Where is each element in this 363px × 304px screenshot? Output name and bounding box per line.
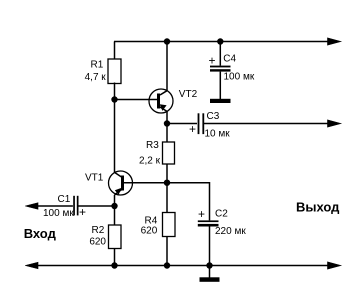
svg-text:C4: C4 xyxy=(223,54,236,65)
label Вход (input) xyxy=(24,226,57,241)
label Выход (output) xyxy=(296,199,340,214)
node: VT2 collector on top rail xyxy=(164,38,170,44)
wire: VT1 base to node C and on to C2 branch corner xyxy=(124,183,210,221)
resistor R4 xyxy=(163,183,176,266)
C1 plus sign xyxy=(79,205,86,219)
svg-text:C3: C3 xyxy=(207,111,220,122)
value 10 мк xyxy=(205,129,231,140)
svg-text:620: 620 xyxy=(141,226,158,237)
svg-text:10 мк: 10 мк xyxy=(205,129,231,140)
svg-text:C2: C2 xyxy=(215,209,228,220)
resistor R2 xyxy=(109,206,122,266)
resistor R3 xyxy=(163,124,175,183)
node: R4 on bottom rail xyxy=(164,262,170,268)
node: R2 on bottom rail xyxy=(111,262,117,268)
C3 output arrow terminal xyxy=(328,120,342,127)
wire: VT2 collector up to top rail xyxy=(166,42,168,91)
svg-text:2,2 к: 2,2 к xyxy=(139,155,161,166)
label R2 xyxy=(92,225,105,236)
value 100 мк (C1) xyxy=(43,208,74,219)
capacitor C4 xyxy=(210,42,231,100)
label R1 xyxy=(91,60,104,71)
label VT2 xyxy=(179,89,198,100)
svg-text:C1: C1 xyxy=(58,194,71,205)
top rail right arrow terminal xyxy=(328,38,342,45)
input arrow terminal xyxy=(25,203,38,210)
svg-text:VT1: VT1 xyxy=(85,172,104,183)
C2 plus sign xyxy=(198,207,205,221)
svg-text:620: 620 xyxy=(89,237,106,248)
svg-text:+: + xyxy=(198,207,205,221)
C3 plus sign xyxy=(189,122,196,136)
wire: VT1 emitter to node B xyxy=(114,195,116,206)
value 2,2 к xyxy=(139,155,161,166)
transistor VT2 xyxy=(149,89,173,113)
wire: node A down to VT1 collector xyxy=(114,100,116,173)
ground symbol below bottom rail xyxy=(200,266,220,282)
svg-text:100 мк: 100 мк xyxy=(224,72,255,83)
value 4,7 к xyxy=(85,72,107,83)
capacitor C2 xyxy=(198,220,219,265)
label C3 xyxy=(207,111,220,122)
capacitor C3 xyxy=(167,113,332,134)
bottom rail left arrow terminal xyxy=(25,262,38,269)
transistor VT1 xyxy=(109,171,133,195)
label R3 xyxy=(146,140,159,151)
value 620 (R4) xyxy=(141,226,158,237)
C4 plus sign xyxy=(209,54,216,68)
bottom rail right arrow terminal xyxy=(328,262,342,269)
wire: bottom common rail xyxy=(29,265,332,267)
label R4 xyxy=(145,216,158,227)
resistor R1 xyxy=(108,42,121,100)
svg-text:100 мк: 100 мк xyxy=(43,208,74,219)
node: VT2 emitter / C3 / R3 junction xyxy=(164,120,170,126)
svg-text:Вход: Вход xyxy=(24,226,57,241)
wire: VT2 emitter down to emitter node xyxy=(166,111,168,123)
svg-text:+: + xyxy=(189,122,196,136)
wire: node A to VT2 base xyxy=(115,99,158,101)
svg-text:220 мк: 220 мк xyxy=(215,226,246,237)
value 220 мк xyxy=(215,226,246,237)
svg-text:+: + xyxy=(209,54,216,68)
node: C2 / ground on bottom rail xyxy=(206,262,212,268)
label VT1 xyxy=(85,172,104,183)
svg-text:VT2: VT2 xyxy=(179,89,198,100)
node A junction (R1 / VT2 base / VT1 collector) xyxy=(111,96,117,102)
value 100 мк (C4) xyxy=(224,72,255,83)
node: C4 on top rail xyxy=(217,38,223,44)
svg-text:+: + xyxy=(79,205,86,219)
wire: top supply rail xyxy=(114,41,332,43)
node C junction (R3 / R4 / VT1 base / C2) xyxy=(164,180,170,186)
ground symbol below C4 xyxy=(210,99,231,103)
label C4 xyxy=(223,54,236,65)
node B junction (C1 / VT1 emitter / R2) xyxy=(111,203,117,209)
capacitor C1 xyxy=(29,196,115,216)
value 620 (R2) xyxy=(89,237,106,248)
label C2 xyxy=(215,209,228,220)
svg-text:Выход: Выход xyxy=(296,199,340,214)
svg-text:4,7 к: 4,7 к xyxy=(85,72,107,83)
svg-text:R2: R2 xyxy=(92,225,105,236)
svg-text:R1: R1 xyxy=(91,60,104,71)
label C1 xyxy=(58,194,71,205)
svg-text:R3: R3 xyxy=(146,140,159,151)
